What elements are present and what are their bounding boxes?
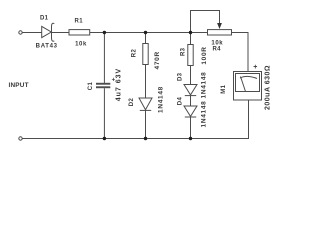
svg-text:R3: R3	[180, 47, 186, 56]
svg-text:R2: R2	[132, 49, 138, 58]
svg-text:R1: R1	[75, 18, 84, 24]
svg-text:1N4148: 1N4148	[158, 86, 165, 113]
svg-text:D3: D3	[177, 72, 183, 81]
svg-text:200uA 630Ω: 200uA 630Ω	[264, 65, 271, 110]
svg-text:D1: D1	[40, 15, 49, 21]
svg-text:4u7 63V: 4u7 63V	[116, 68, 123, 101]
svg-text:+: +	[253, 64, 257, 71]
svg-text:470R: 470R	[154, 51, 161, 69]
svg-text:10k: 10k	[75, 41, 87, 47]
svg-text:100R: 100R	[201, 46, 208, 64]
svg-text:BAT43: BAT43	[36, 43, 58, 49]
svg-text:1N4148: 1N4148	[201, 72, 208, 99]
svg-text:INPUT: INPUT	[9, 82, 29, 89]
svg-text:D4: D4	[177, 97, 183, 106]
svg-text:R4: R4	[212, 46, 221, 52]
svg-text:C1: C1	[88, 82, 94, 91]
svg-text:1N4148: 1N4148	[201, 101, 208, 128]
svg-text:D2: D2	[129, 98, 135, 107]
svg-text:M1: M1	[221, 84, 227, 93]
